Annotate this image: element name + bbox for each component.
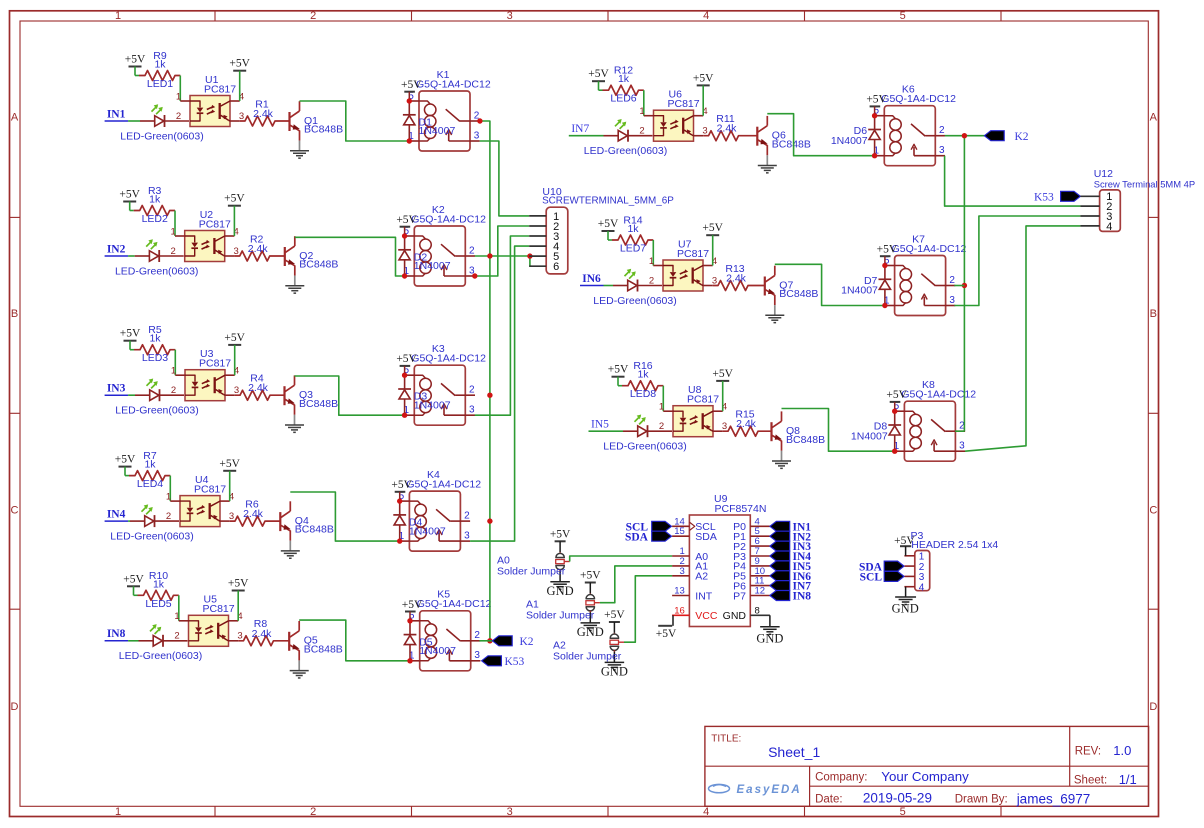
+5V power flag bbox=[402, 599, 423, 621]
junction K4 pin 1 bbox=[397, 538, 402, 543]
net flag K2 bbox=[984, 131, 1028, 143]
wire K1 pin 2 to common trunk bbox=[480, 121, 490, 256]
pin numbers K4 bbox=[399, 491, 471, 542]
wire +5V to R14 bbox=[608, 231, 612, 240]
diode D1 1N4007 bbox=[403, 101, 456, 141]
pin numbers K1 bbox=[408, 91, 480, 142]
svg-text:1: 1 bbox=[659, 402, 664, 413]
wire +5V to U7 pin 4 bbox=[712, 235, 714, 265]
svg-text:LED4: LED4 bbox=[137, 478, 163, 490]
resistor R4 2.4k bbox=[235, 373, 285, 401]
junction K7 pin 5 bbox=[882, 263, 887, 268]
wire +5V to R12 bbox=[599, 81, 603, 90]
ground bbox=[285, 415, 304, 433]
svg-text:+5V: +5V bbox=[224, 193, 245, 205]
wire R10 to U5 pin 1 bbox=[178, 595, 180, 621]
svg-text:+5V: +5V bbox=[580, 570, 601, 582]
svg-text:1: 1 bbox=[115, 806, 121, 818]
wire +5V to R5 bbox=[130, 341, 134, 350]
svg-text:PC817: PC817 bbox=[687, 394, 719, 406]
svg-text:BC848B: BC848B bbox=[304, 643, 343, 655]
+5V power flag bbox=[693, 72, 714, 85]
pin numbers U1 bbox=[176, 91, 244, 122]
wire +5V to R16 bbox=[618, 377, 622, 386]
svg-text:IN8: IN8 bbox=[793, 591, 812, 603]
junction trunk K3 pin 2 bbox=[487, 393, 492, 398]
wire K8 pin 2 stub to trunk bbox=[955, 430, 964, 432]
junction K4 pin 5 bbox=[397, 498, 402, 503]
wire K7 pin 2 stub to trunk bbox=[954, 285, 964, 287]
svg-text:+5V: +5V bbox=[866, 94, 887, 106]
junction trunk K7 pin 2 bbox=[962, 283, 967, 288]
svg-text:+5V: +5V bbox=[219, 458, 240, 470]
+5V power flag bbox=[229, 58, 250, 71]
pin numbers K2 bbox=[404, 226, 476, 277]
LED LED3 LED-Green(0603) bbox=[115, 352, 198, 416]
resistor R9 1k bbox=[139, 50, 180, 81]
+5V power flag bbox=[866, 94, 887, 116]
svg-text:D: D bbox=[11, 701, 19, 713]
svg-text:+5V: +5V bbox=[604, 609, 625, 621]
svg-text:PC817: PC817 bbox=[199, 218, 231, 230]
transistor Q5 BC848B bbox=[289, 621, 343, 660]
transistor Q2 BC848B bbox=[285, 236, 339, 275]
svg-text:2019-05-29: 2019-05-29 bbox=[863, 791, 932, 806]
svg-text:Solder Jumper: Solder Jumper bbox=[553, 651, 622, 663]
svg-text:LED6: LED6 bbox=[610, 93, 636, 105]
junction K7 pin 1 bbox=[882, 303, 887, 308]
ground bbox=[290, 141, 309, 159]
svg-text:VCC: VCC bbox=[695, 610, 718, 622]
svg-text:15: 15 bbox=[674, 526, 685, 537]
svg-text:3: 3 bbox=[474, 130, 480, 141]
header P3 HEADER 2.54 1x4 bbox=[911, 530, 999, 591]
+5V power flag bbox=[391, 479, 412, 501]
transistor Q1 BC848B bbox=[290, 101, 344, 140]
svg-text:B: B bbox=[1150, 308, 1157, 320]
svg-text:LED2: LED2 bbox=[142, 213, 168, 225]
svg-text:PC817: PC817 bbox=[203, 603, 235, 615]
svg-text:+5V: +5V bbox=[712, 368, 733, 380]
LED LED5 LED-Green(0603) bbox=[119, 598, 202, 662]
svg-text:1: 1 bbox=[174, 611, 179, 622]
+5V power flag bbox=[125, 54, 146, 67]
svg-text:1: 1 bbox=[166, 491, 171, 502]
+5V power flag bbox=[712, 368, 733, 381]
LED LED6 LED-Green(0603) bbox=[584, 93, 667, 157]
svg-text:2.4k: 2.4k bbox=[717, 123, 738, 135]
svg-text:LED-Green(0603): LED-Green(0603) bbox=[603, 441, 686, 453]
svg-text:1N4007: 1N4007 bbox=[851, 430, 888, 442]
svg-text:1: 1 bbox=[115, 10, 121, 22]
net label IN1 bbox=[105, 108, 129, 121]
svg-text:SDA: SDA bbox=[625, 531, 649, 543]
svg-text:+5V: +5V bbox=[702, 222, 723, 234]
svg-text:GND: GND bbox=[892, 602, 919, 616]
svg-text:LED5: LED5 bbox=[145, 598, 171, 610]
svg-text:+5V: +5V bbox=[550, 528, 571, 540]
optocoupler U7 PC817 bbox=[653, 238, 712, 291]
resistor R12 1k bbox=[603, 65, 644, 96]
+5V power flag bbox=[119, 189, 140, 202]
svg-text:LED3: LED3 bbox=[142, 352, 168, 364]
svg-text:Date:: Date: bbox=[815, 793, 843, 805]
svg-text:8: 8 bbox=[755, 605, 760, 616]
resistor R15 2.4k bbox=[723, 409, 772, 437]
wire Q8 collector to relay K8 coil bbox=[782, 409, 895, 452]
svg-text:Solder Jumper: Solder Jumper bbox=[497, 566, 566, 578]
wire right common trunk K6-K8 bbox=[963, 136, 965, 432]
junction trunk K2 pin 2 bbox=[487, 253, 492, 258]
wire R3 to U2 pin 1 bbox=[174, 211, 176, 237]
wire +5V to R7 bbox=[125, 467, 129, 476]
svg-text:3: 3 bbox=[939, 145, 945, 156]
svg-text:2: 2 bbox=[166, 511, 171, 522]
relay K8 G5Q-1A4-DC12 bbox=[895, 379, 977, 461]
svg-text:3: 3 bbox=[469, 405, 475, 416]
ground at U9 pin 8 bbox=[756, 615, 783, 645]
svg-text:+5V: +5V bbox=[123, 573, 144, 585]
svg-text:+5V: +5V bbox=[115, 454, 136, 466]
pin numbers K3 bbox=[404, 365, 476, 416]
pin U9 GND 8 bbox=[723, 605, 770, 622]
diode D8 1N4007 bbox=[851, 411, 901, 451]
svg-text:2: 2 bbox=[639, 126, 644, 137]
wire +5V to U3 pin 4 bbox=[234, 345, 236, 375]
wire +5V to R9 bbox=[135, 67, 139, 76]
svg-text:3: 3 bbox=[464, 531, 470, 542]
svg-text:1k: 1k bbox=[637, 369, 649, 381]
transistor Q4 BC848B bbox=[280, 501, 334, 540]
svg-text:2: 2 bbox=[949, 275, 955, 286]
svg-text:1k: 1k bbox=[154, 59, 166, 71]
pin numbers U5 bbox=[174, 611, 242, 642]
svg-text:INT: INT bbox=[695, 590, 713, 602]
resistor R11 2.4k bbox=[703, 113, 757, 141]
transistor Q3 BC848B bbox=[285, 375, 339, 414]
wire +5V to U4 pin 4 bbox=[229, 471, 231, 501]
svg-text:LED8: LED8 bbox=[630, 388, 656, 400]
+5V power flag bbox=[886, 389, 907, 411]
svg-text:IN7: IN7 bbox=[571, 123, 589, 135]
ground bbox=[758, 155, 777, 173]
+5V power flag bbox=[120, 328, 141, 341]
resistor R1 2.4k bbox=[240, 98, 290, 126]
svg-text:1: 1 bbox=[171, 366, 176, 377]
svg-text:G5Q-1A4-DC12: G5Q-1A4-DC12 bbox=[406, 479, 481, 491]
pin numbers K7 bbox=[884, 255, 956, 306]
svg-text:2.4k: 2.4k bbox=[736, 418, 757, 430]
svg-text:Sheet_1: Sheet_1 bbox=[768, 744, 820, 760]
transistor Q7 BC848B bbox=[765, 266, 819, 305]
svg-text:Screw Terminal 5MM 4P: Screw Terminal 5MM 4P bbox=[1094, 179, 1195, 190]
junction K2 pin 3 bbox=[472, 273, 477, 278]
svg-text:GND: GND bbox=[601, 665, 628, 679]
svg-text:EasyEDA: EasyEDA bbox=[737, 784, 802, 796]
svg-text:LED-Green(0603): LED-Green(0603) bbox=[110, 530, 193, 542]
svg-text:+5V: +5V bbox=[396, 353, 417, 365]
transistor Q8 BC848B bbox=[772, 411, 826, 450]
svg-text:C: C bbox=[1149, 505, 1157, 517]
net flag K2 bbox=[492, 636, 533, 648]
relay K3 G5Q-1A4-DC12 bbox=[405, 343, 487, 425]
svg-text:2: 2 bbox=[464, 511, 470, 522]
svg-text:1.0: 1.0 bbox=[1113, 743, 1131, 758]
resistor R5 1k bbox=[134, 324, 175, 355]
wire R9 to U1 pin 1 bbox=[179, 76, 181, 102]
svg-text:HEADER 2.54 1x4: HEADER 2.54 1x4 bbox=[911, 539, 998, 551]
svg-text:Drawn By:: Drawn By: bbox=[955, 793, 1008, 805]
wire Q7 collector to relay K7 coil bbox=[775, 264, 885, 305]
svg-text:+5V: +5V bbox=[588, 68, 609, 80]
optocoupler U6 PC817 bbox=[644, 89, 703, 142]
svg-text:3: 3 bbox=[237, 631, 242, 642]
svg-text:K2: K2 bbox=[1015, 131, 1029, 143]
wire +5V to U5 pin 4 bbox=[237, 591, 239, 621]
svg-text:2.4k: 2.4k bbox=[726, 273, 747, 285]
relay K4 G5Q-1A4-DC12 bbox=[400, 469, 482, 551]
wire K2 pin 2 to U10 pin 5 bbox=[475, 255, 530, 257]
svg-text:1k: 1k bbox=[627, 223, 639, 235]
pin numbers U3 bbox=[171, 366, 239, 397]
svg-text:+5V: +5V bbox=[886, 389, 907, 401]
svg-text:+5V: +5V bbox=[401, 79, 422, 91]
svg-text:BC848B: BC848B bbox=[295, 524, 334, 536]
wire A2 jumper to U9 A2 bbox=[624, 576, 672, 642]
svg-text:BC848B: BC848B bbox=[786, 434, 825, 446]
junction K8 pin 5 bbox=[892, 409, 897, 414]
svg-text:LED7: LED7 bbox=[620, 243, 646, 255]
svg-text:+5V: +5V bbox=[229, 58, 250, 70]
wire IN2 to LED bbox=[128, 255, 135, 257]
svg-text:D: D bbox=[1149, 701, 1157, 713]
wire +5V to U8 pin 4 bbox=[722, 381, 724, 411]
svg-text:A: A bbox=[1150, 112, 1158, 124]
svg-text:K2: K2 bbox=[520, 636, 534, 648]
svg-text:2: 2 bbox=[469, 245, 475, 256]
svg-text:IN8: IN8 bbox=[107, 628, 126, 640]
screw terminal U12 Screw Terminal 5MM 4P bbox=[1094, 168, 1195, 231]
svg-text:IN1: IN1 bbox=[107, 108, 126, 120]
wire IN8 to LED bbox=[128, 640, 138, 642]
svg-text:6: 6 bbox=[553, 261, 559, 273]
LED LED7 LED-Green(0603) bbox=[593, 243, 676, 307]
junction K1 pin 5 bbox=[407, 98, 412, 103]
svg-text:+5V: +5V bbox=[119, 189, 140, 201]
svg-text:PC817: PC817 bbox=[204, 83, 236, 95]
resistor R7 1k bbox=[129, 450, 170, 481]
svg-text:K53: K53 bbox=[1034, 192, 1054, 204]
svg-text:12: 12 bbox=[755, 586, 766, 597]
svg-text:1/1: 1/1 bbox=[1119, 772, 1137, 787]
ground bbox=[290, 660, 309, 678]
svg-text:LED-Green(0603): LED-Green(0603) bbox=[119, 650, 202, 662]
svg-text:2.4k: 2.4k bbox=[252, 628, 273, 640]
junction K1 pin 1 bbox=[407, 138, 412, 143]
svg-text:+5V: +5V bbox=[598, 218, 619, 230]
svg-text:2: 2 bbox=[310, 806, 316, 818]
+5V power flag bbox=[228, 578, 249, 591]
ground bbox=[285, 276, 304, 294]
svg-text:PC817: PC817 bbox=[194, 484, 226, 496]
wire Q3 collector to relay K3 coil bbox=[295, 376, 405, 415]
svg-text:+5V: +5V bbox=[391, 479, 412, 491]
diode D3 1N4007 bbox=[398, 375, 451, 415]
wire IN3 to LED bbox=[128, 394, 135, 396]
transistor Q6 BC848B bbox=[757, 116, 811, 155]
resistor R13 2.4k bbox=[713, 263, 765, 291]
+5V power flag at U9 VCC bbox=[656, 615, 677, 640]
svg-text:GND: GND bbox=[723, 610, 747, 622]
wire IN7 to LED bbox=[569, 135, 604, 137]
LED LED2 LED-Green(0603) bbox=[115, 213, 198, 277]
wire K8 pin 3 to U12 pin 4 bbox=[965, 226, 1080, 451]
+5V power flag bbox=[219, 458, 240, 471]
optocoupler U8 PC817 bbox=[663, 384, 722, 437]
+5V power flag at P3 bbox=[894, 535, 915, 556]
svg-text:3: 3 bbox=[507, 10, 513, 22]
junction trunk K6 pin 2 bbox=[962, 133, 967, 138]
svg-text:2: 2 bbox=[649, 275, 654, 286]
net label IN2 bbox=[105, 243, 129, 256]
junction K1 pin 2 bbox=[477, 118, 482, 123]
svg-text:BC848B: BC848B bbox=[304, 124, 343, 136]
svg-text:+5V: +5V bbox=[224, 332, 245, 344]
svg-text:1N4007: 1N4007 bbox=[414, 399, 451, 411]
junction K3 pin 1 bbox=[402, 413, 407, 418]
svg-text:+5V: +5V bbox=[656, 628, 677, 640]
svg-text:P7: P7 bbox=[733, 590, 746, 602]
optocoupler U2 PC817 bbox=[175, 209, 234, 262]
svg-text:3: 3 bbox=[959, 441, 965, 452]
svg-text:1N4007: 1N4007 bbox=[409, 525, 446, 537]
wire +5V to U6 pin 4 bbox=[702, 85, 704, 115]
pin numbers U4 bbox=[166, 491, 234, 522]
diode D4 1N4007 bbox=[393, 501, 446, 541]
+5V power flag bbox=[123, 573, 144, 586]
svg-text:1N4007: 1N4007 bbox=[831, 135, 868, 147]
ground at P3 pin 4 bbox=[892, 587, 919, 616]
svg-text:1k: 1k bbox=[153, 578, 165, 590]
wire K6 pin 3 to U12 pin 2 bbox=[945, 156, 1081, 206]
svg-text:3: 3 bbox=[507, 806, 513, 818]
wire +5V to R10 bbox=[134, 586, 138, 595]
junction K6 pin 5 bbox=[872, 113, 877, 118]
svg-text:PCF8574N: PCF8574N bbox=[715, 503, 767, 515]
svg-text:3: 3 bbox=[680, 566, 685, 577]
wire +5V to U1 pin 4 bbox=[239, 71, 241, 101]
svg-text:IN5: IN5 bbox=[591, 419, 609, 431]
svg-text:LED-Green(0603): LED-Green(0603) bbox=[593, 295, 676, 307]
+5V power flag bbox=[598, 218, 619, 231]
diode D5 1N4007 bbox=[404, 621, 457, 661]
svg-text:G5Q-1A4-DC12: G5Q-1A4-DC12 bbox=[416, 78, 491, 90]
pin numbers U8 bbox=[659, 402, 727, 433]
svg-text:+5V: +5V bbox=[877, 244, 898, 256]
wire K2 pin 3 to U10 pin 2 bbox=[475, 226, 529, 276]
svg-text:LED-Green(0603): LED-Green(0603) bbox=[584, 145, 667, 157]
wire R16 to U8 pin 1 bbox=[662, 386, 664, 412]
svg-text:GND: GND bbox=[577, 625, 604, 639]
wire A0 jumper to U9 A0 bbox=[570, 556, 672, 562]
svg-text:4: 4 bbox=[1106, 221, 1112, 233]
svg-text:C: C bbox=[11, 505, 19, 517]
svg-text:+5V: +5V bbox=[693, 72, 714, 84]
wire Q2 collector to relay K2 coil bbox=[295, 237, 405, 276]
svg-text:BC848B: BC848B bbox=[299, 259, 338, 271]
net label IN3 bbox=[105, 383, 129, 396]
svg-text:PC817: PC817 bbox=[668, 98, 700, 110]
+5V power flag bbox=[396, 353, 417, 375]
wire +5V to R3 bbox=[130, 202, 134, 211]
svg-text:PC817: PC817 bbox=[199, 358, 231, 370]
pins U9 right P0-P7 bbox=[733, 516, 770, 602]
svg-text:BC848B: BC848B bbox=[779, 288, 818, 300]
svg-text:4: 4 bbox=[919, 583, 925, 594]
wire K3 pin 3 to U10 pin 3 bbox=[475, 236, 529, 415]
svg-text:SCL: SCL bbox=[860, 572, 883, 584]
svg-text:1N4007: 1N4007 bbox=[841, 285, 878, 297]
+5V power flag bbox=[401, 79, 422, 101]
svg-text:LED-Green(0603): LED-Green(0603) bbox=[115, 405, 198, 417]
wire Q4 collector to relay K4 coil bbox=[290, 492, 399, 541]
pin numbers U7 bbox=[649, 256, 717, 287]
net flag SCL at P3 bbox=[860, 571, 904, 583]
junction K8 pin 1 bbox=[892, 449, 897, 454]
svg-text:IN4: IN4 bbox=[107, 509, 126, 521]
wire IN5 to LED bbox=[589, 430, 624, 432]
pins U10 1-6 bbox=[529, 211, 559, 273]
svg-text:2: 2 bbox=[171, 246, 176, 257]
net flag K53 bbox=[482, 656, 525, 668]
svg-text:K53: K53 bbox=[505, 656, 525, 668]
ground bbox=[281, 541, 300, 559]
svg-text:+5V: +5V bbox=[608, 364, 629, 376]
svg-text:3: 3 bbox=[474, 650, 480, 661]
IC U9 PCF8574N bbox=[689, 493, 766, 626]
+5V power flag bbox=[608, 364, 629, 377]
svg-text:BC848B: BC848B bbox=[299, 398, 338, 410]
relay K2 G5Q-1A4-DC12 bbox=[405, 204, 487, 286]
+5V power flag bbox=[396, 214, 417, 236]
svg-text:james_6977: james_6977 bbox=[1016, 792, 1091, 807]
resistor R6 2.4k bbox=[230, 499, 281, 527]
resistor R2 2.4k bbox=[234, 233, 284, 261]
wire K7 pin 3 to U12 pin 3 bbox=[954, 216, 1080, 306]
svg-text:1N4007: 1N4007 bbox=[414, 260, 451, 272]
junction K6 pin 1 bbox=[872, 153, 877, 158]
svg-text:5: 5 bbox=[900, 10, 906, 22]
svg-text:Sheet:: Sheet: bbox=[1074, 775, 1107, 787]
svg-text:2: 2 bbox=[474, 630, 480, 641]
junction K3 pin 5 bbox=[402, 373, 407, 378]
diode D7 1N4007 bbox=[841, 266, 891, 306]
svg-text:PC817: PC817 bbox=[677, 248, 709, 260]
ground bbox=[765, 305, 784, 323]
resistor R14 1k bbox=[612, 215, 653, 246]
relay K1 G5Q-1A4-DC12 bbox=[409, 69, 491, 151]
pins U9 left bbox=[672, 516, 718, 622]
junction trunk K4 pin 2 bbox=[487, 518, 492, 523]
resistor R3 1k bbox=[134, 185, 175, 216]
optocoupler U4 PC817 bbox=[170, 474, 229, 527]
svg-text:+5V: +5V bbox=[120, 328, 141, 340]
svg-text:GND: GND bbox=[547, 584, 574, 598]
svg-text:1k: 1k bbox=[149, 333, 161, 345]
svg-text:A: A bbox=[11, 112, 19, 124]
svg-text:SDA: SDA bbox=[695, 531, 717, 543]
svg-text:B: B bbox=[11, 308, 18, 320]
